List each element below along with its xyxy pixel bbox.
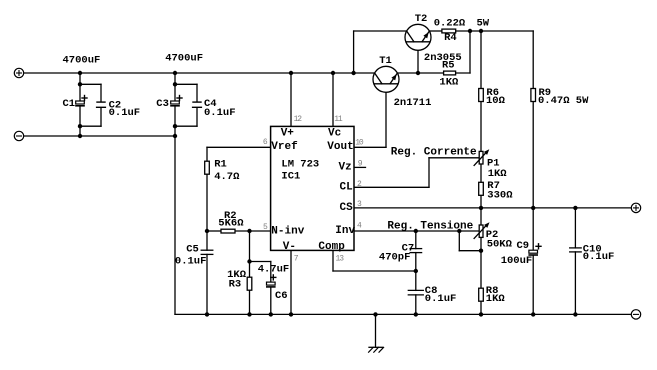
svg-text:4.7Ω: 4.7Ω	[214, 171, 240, 183]
svg-text:Reg. Tensione: Reg. Tensione	[387, 220, 473, 232]
svg-text:R4: R4	[444, 32, 457, 44]
svg-text:C6: C6	[275, 290, 288, 302]
svg-text:0.1uF: 0.1uF	[583, 251, 615, 263]
svg-text:470pF: 470pF	[379, 252, 411, 264]
svg-text:1KΩ: 1KΩ	[488, 168, 508, 180]
svg-text:Vz: Vz	[339, 161, 352, 173]
svg-text:10: 10	[355, 138, 364, 147]
svg-text:5K6Ω: 5K6Ω	[218, 218, 244, 230]
svg-text:0.1uF: 0.1uF	[204, 107, 236, 119]
svg-text:Comp: Comp	[318, 241, 345, 253]
svg-text:1KΩ: 1KΩ	[439, 77, 459, 89]
svg-text:Reg. Corrente: Reg. Corrente	[391, 147, 477, 159]
svg-text:C5: C5	[186, 244, 199, 256]
svg-text:CS: CS	[340, 202, 354, 214]
svg-text:V-: V-	[283, 241, 296, 253]
svg-text:R5: R5	[442, 59, 455, 71]
svg-text:10Ω: 10Ω	[486, 95, 506, 107]
svg-text:Vout: Vout	[327, 141, 353, 153]
svg-text:C3: C3	[156, 98, 169, 110]
svg-text:V+: V+	[281, 127, 295, 139]
svg-text:N-inv: N-inv	[271, 225, 304, 237]
svg-text:LM 723: LM 723	[281, 158, 319, 170]
svg-text:0.1uF: 0.1uF	[175, 255, 207, 267]
svg-text:IC1: IC1	[281, 171, 300, 183]
svg-text:Vc: Vc	[328, 127, 341, 139]
svg-text:T1: T1	[379, 55, 392, 67]
svg-text:5W: 5W	[576, 95, 589, 107]
svg-text:R1: R1	[214, 159, 227, 171]
svg-text:0.1uF: 0.1uF	[109, 107, 141, 119]
svg-text:2n1711: 2n1711	[394, 97, 432, 109]
svg-text:1KΩ: 1KΩ	[486, 293, 506, 305]
svg-text:0.22Ω: 0.22Ω	[434, 18, 466, 30]
svg-text:5W: 5W	[477, 18, 490, 30]
svg-text:R3: R3	[229, 278, 242, 290]
svg-text:4.7uF: 4.7uF	[258, 264, 290, 276]
svg-text:C1: C1	[63, 98, 76, 110]
svg-text:4700uF: 4700uF	[165, 53, 203, 65]
svg-text:50KΩ: 50KΩ	[487, 239, 513, 251]
svg-text:T2: T2	[415, 13, 428, 25]
svg-text:13: 13	[336, 254, 345, 263]
svg-text:330Ω: 330Ω	[487, 189, 513, 201]
svg-text:CL: CL	[340, 181, 354, 193]
svg-text:Vref: Vref	[271, 141, 298, 153]
svg-text:100uF: 100uF	[501, 255, 533, 267]
svg-text:0.1uF: 0.1uF	[425, 293, 457, 305]
svg-text:Inv: Inv	[335, 225, 355, 237]
svg-text:4700uF: 4700uF	[63, 55, 101, 67]
svg-text:C9: C9	[517, 240, 530, 252]
svg-text:11: 11	[334, 115, 343, 124]
svg-text:12: 12	[294, 115, 303, 124]
svg-text:0.47Ω: 0.47Ω	[538, 95, 570, 107]
